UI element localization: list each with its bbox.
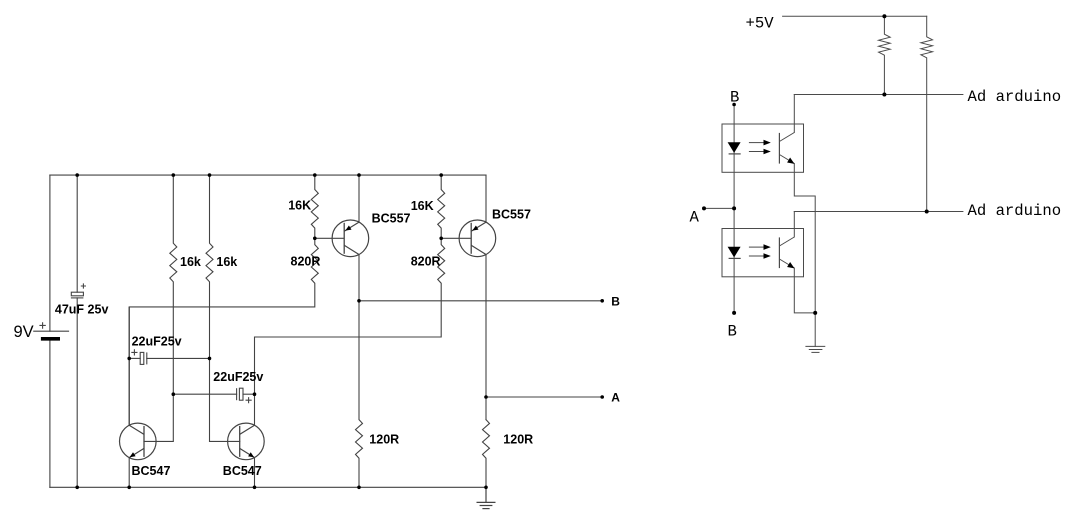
capacitor C1 47uF 25v (polarized) [71,283,86,298]
wire bottom ground rail (left schematic) [50,486,486,488]
resistor 16K (chain 2 upper) [438,175,445,238]
svg-text:820R: 820R [411,255,441,269]
resistor pull-up 2 [921,16,933,211]
wire +5V rail [783,15,927,17]
resistor 16k (second, with leads down to Q2 base) [206,175,240,441]
wire Q4 collector to node A [485,255,487,420]
svg-text:16k: 16k [216,255,237,269]
resistor 120R (second) [483,420,490,488]
resistor 16K (chain 1 upper) [311,175,318,238]
wire opto2 emitter [794,268,815,313]
svg-text:47uF 25v: 47uF 25v [55,303,109,317]
wire left battery branch [49,175,51,487]
wire capacitor C2 row left [129,357,140,359]
svg-text:A: A [611,391,620,405]
resistor 16k (first, with leads down to Q1 base) [144,175,177,441]
svg-text:A: A [690,209,700,227]
wire Q3 collector to node B [358,255,360,301]
transistor Q2 BC547 (NPN) [228,423,265,460]
svg-text:B: B [611,294,620,308]
optocoupler U1 box [722,124,804,172]
phototransistor (inside U1) [779,133,794,164]
svg-text:BC557: BC557 [372,211,411,225]
wire opto1 collector [793,95,795,133]
wire node A stub [704,207,734,209]
svg-text:B: B [728,322,737,340]
svg-text:Ad arduino: Ad arduino [968,202,1062,220]
wire opto2 collector [793,212,795,238]
capacitor C3 22uF25v (polarized, horizontal) [237,388,252,403]
wire LED chain B-to-B [733,104,735,313]
battery BT1 9V [33,322,69,339]
ground (right schematic) [814,313,816,347]
wire capacitor C3 row left [173,393,236,395]
resistor 120R (first) [356,301,363,488]
resistor 820R (chain 2 lower) with wire to Q2 collector [255,238,445,425]
junction dots (right schematic) [702,14,929,315]
svg-text:9V: 9V [14,323,34,341]
svg-text:BC557: BC557 [492,207,531,221]
wire 47uF branch [76,175,78,487]
wire node A [486,396,602,398]
junction dots (left schematic) [75,173,604,489]
svg-text:16K: 16K [288,198,311,212]
svg-text:16K: 16K [411,199,434,213]
resistor pull-up 1 [879,16,891,94]
ground (left schematic) [477,487,496,508]
resistor 820R (chain 1 lower) with wire to Q1 collector [129,238,318,425]
svg-text:22uF25v: 22uF25v [132,335,182,349]
svg-text:120R: 120R [369,433,399,447]
wire Ad arduino line 2 [794,211,963,213]
transistor Q4 BC557 (PNP) [441,220,496,257]
wire node B [359,300,602,302]
svg-text:120R: 120R [503,433,533,447]
wire capacitor C3 row right [243,393,255,395]
wire capacitor C2 row right [147,357,210,359]
capacitor C2 22uF25v (polarized, horizontal) [131,349,147,364]
svg-text:+5V: +5V [746,15,775,33]
transistor Q3 BC557 (PNP) [315,220,369,257]
svg-text:BC547: BC547 [132,464,171,478]
svg-text:16k: 16k [180,255,201,269]
LED D1 (inside U1) [728,140,771,155]
wire Q4 emitter from rail [485,175,487,222]
phototransistor (inside U2) [779,237,794,268]
wire Q3 emitter from rail [358,175,360,222]
wire Ad arduino line 1 [794,94,963,96]
svg-text:820R: 820R [291,255,321,269]
svg-text:BC547: BC547 [223,464,262,478]
optocoupler U2 box [722,229,804,277]
LED D2 (inside U2) [728,244,771,258]
wire Q1 emitter to ground rail [128,458,130,488]
wire Q2 emitter to ground rail [254,458,256,488]
svg-text:B: B [730,89,739,107]
wire top supply rail (left schematic) [50,174,486,176]
labels (right schematic) [690,15,1062,341]
transistor Q1 BC547 (NPN, mirrored) [120,307,157,460]
wire opto1 emitter jog [794,164,815,313]
svg-text:22uF25v: 22uF25v [213,370,263,384]
labels (left schematic) [14,198,621,478]
svg-text:Ad arduino: Ad arduino [968,88,1062,106]
